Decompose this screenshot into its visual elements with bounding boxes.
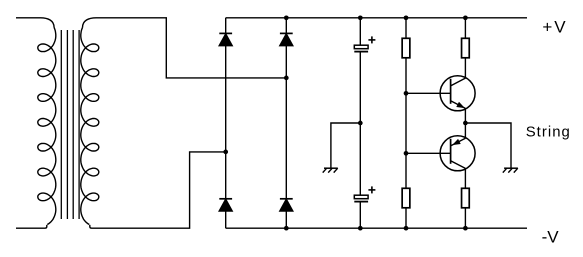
capacitor column wire — [359, 18, 361, 46]
junction — [463, 15, 468, 20]
junction — [463, 121, 468, 126]
resistor R3 — [402, 188, 410, 208]
junction — [404, 91, 409, 96]
secondary winding — [81, 28, 99, 225]
junction — [358, 121, 363, 126]
transistor Q1 (NPN) — [440, 76, 475, 111]
junction — [404, 15, 409, 20]
junction — [358, 226, 363, 231]
svg-text:+V: +V — [542, 18, 567, 37]
diode D4 (bridge bottom-right) — [280, 199, 293, 211]
resistor column A wire — [405, 18, 407, 228]
transformer T1 — [16, 18, 286, 228]
junction — [223, 150, 228, 155]
junction — [358, 15, 363, 20]
svg-text:-V: -V — [542, 227, 560, 246]
junction — [284, 76, 289, 81]
capacitor C1 — [354, 36, 375, 51]
wire cap midpoint to ground — [331, 123, 360, 168]
bridge left column wire — [225, 18, 227, 228]
Q1 base wire — [406, 92, 451, 94]
diode D3 (bridge bottom-left) — [219, 199, 232, 211]
junction — [284, 226, 289, 231]
resistor R2 — [462, 38, 470, 58]
ground GND1 — [323, 168, 338, 172]
String output wire — [465, 123, 511, 168]
secondary top lead wire to bridge — [83, 18, 287, 78]
resistor R1 — [402, 38, 410, 58]
junction — [463, 226, 468, 231]
transformer core — [60, 30, 62, 219]
junction — [404, 226, 409, 231]
top rail +V wire — [226, 17, 527, 19]
svg-text:String: String — [526, 124, 571, 140]
bridge right column wire — [285, 18, 287, 228]
resistor R4 — [462, 188, 470, 208]
junction — [404, 151, 409, 156]
diode D2 (bridge top-right) — [280, 33, 293, 45]
bottom rail -V wire — [226, 227, 527, 229]
primary bottom lead wire — [16, 225, 47, 228]
primary winding — [38, 28, 56, 225]
Q2 base wire — [406, 152, 451, 154]
secondary bottom lead wire to bridge — [90, 152, 226, 228]
ground GND2 — [503, 168, 518, 172]
primary top lead wire — [16, 18, 54, 28]
transistor Q2 (PNP) — [440, 136, 475, 171]
junction — [284, 15, 289, 20]
resistor column B wires — [464, 18, 466, 39]
capacitor C2 — [354, 186, 375, 201]
diode D1 (bridge top-left) — [219, 33, 232, 45]
